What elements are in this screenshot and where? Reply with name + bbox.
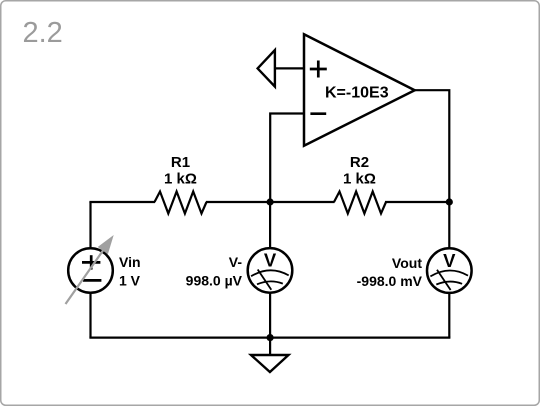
voltage source Vin plus sign xyxy=(82,255,100,269)
svg-text:Vout: Vout xyxy=(392,255,422,271)
ground stub wire xyxy=(269,338,271,355)
svg-text:1 kΩ: 1 kΩ xyxy=(164,170,197,187)
svg-text:-998.0 mV: -998.0 mV xyxy=(357,273,423,289)
op-amp U1 plus input sign xyxy=(310,61,327,78)
wire: left vertical from mid rail down to Vin top xyxy=(89,202,91,249)
voltmeter V- needle xyxy=(258,270,272,290)
svg-text:V: V xyxy=(443,250,456,271)
voltage source Vin variable arrow (gray) xyxy=(66,235,114,304)
svg-text:V: V xyxy=(264,250,277,271)
wire: node down to V- meter top xyxy=(269,202,271,249)
wire: mid rail between R1 and R2 xyxy=(206,201,335,203)
node junction dot at R1/R2/feedback xyxy=(267,198,274,205)
svg-text:K=-10E3: K=-10E3 xyxy=(325,84,389,101)
svg-text:998.0 µV: 998.0 µV xyxy=(186,272,243,288)
wire: op-amp output to right, then down to R2 node xyxy=(415,90,450,202)
svg-text:R2: R2 xyxy=(350,154,369,171)
voltmeter Vout circle xyxy=(427,248,472,293)
wire: inverting input feedback run (left then down to node) xyxy=(270,114,304,203)
svg-text:R1: R1 xyxy=(171,154,190,171)
op-amp U1 minus input sign xyxy=(310,112,326,115)
wire: Vout meter bottom to bottom rail xyxy=(448,293,450,338)
wire: left vertical from Vin bottom to bottom rail xyxy=(89,293,91,338)
voltage source Vin minus sign xyxy=(83,279,101,282)
op-amp U1 triangle xyxy=(304,34,415,145)
input port arrow on + input xyxy=(258,50,275,87)
voltmeter V- scale arcs xyxy=(251,270,289,284)
wire: V- meter bottom to bottom rail xyxy=(269,293,271,338)
svg-text:1 kΩ: 1 kΩ xyxy=(343,170,376,187)
node junction dot at output/R2 xyxy=(446,198,453,205)
voltage source Vin circle xyxy=(68,248,113,293)
wire: output node down to Vout meter top xyxy=(448,202,450,249)
svg-text:Vin: Vin xyxy=(119,254,141,270)
svg-text:1 V: 1 V xyxy=(119,272,141,288)
wire: non-inverting input stub xyxy=(275,67,304,69)
voltmeter Vout scale arcs xyxy=(430,270,468,284)
ground symbol triangle xyxy=(251,355,289,372)
voltmeter V- circle xyxy=(248,248,293,293)
svg-text:V-: V- xyxy=(229,254,243,270)
node junction dot at ground on bottom rail xyxy=(267,334,274,341)
resistor R1 zigzag xyxy=(155,192,207,214)
svg-text:2.2: 2.2 xyxy=(23,17,63,49)
voltmeter Vout needle xyxy=(437,270,451,290)
wire: bottom rail xyxy=(89,337,450,339)
resistor R2 zigzag xyxy=(334,192,386,214)
wire: mid rail from R2 to output node xyxy=(385,201,449,203)
wire: mid rail left segment to R1 xyxy=(89,201,155,203)
